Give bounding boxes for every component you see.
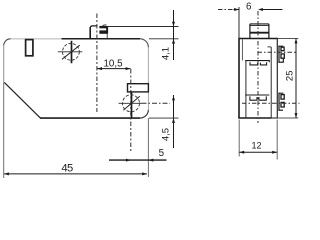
lower hole diagonal: [123, 96, 140, 110]
dimension 25 (right): [278, 39, 298, 119]
svg-text:4,1: 4,1: [161, 47, 172, 60]
plate right edge: [147, 47, 149, 110]
dimension 5 (bottom): [109, 148, 167, 162]
svg-text:6: 6: [246, 1, 252, 12]
svg-text:10,5: 10,5: [103, 58, 123, 69]
left extension for 45 (plate edge prolonged): [3, 83, 5, 178]
svg-text:25: 25: [285, 71, 296, 82]
plate top edge: [62, 38, 141, 40]
svg-text:5: 5: [159, 148, 165, 159]
inner vertical left: [245, 61, 247, 118]
plate bottom-right corner: [140, 110, 149, 119]
lower window edge: [245, 94, 269, 96]
plate chamfer bottom-left: [4, 82, 40, 118]
upper hole vertical stem: [71, 41, 73, 63]
slot rectangle top-left: [26, 40, 33, 56]
right tab lower: [278, 93, 284, 111]
centerline of tab (vertical dashed): [96, 14, 98, 113]
extension line for 5/45 dims (right, vertical): [147, 118, 149, 177]
body top edge: [238, 38, 278, 40]
plate left edge: [3, 45, 5, 83]
upper window edge: [245, 61, 269, 63]
plate top-left corner: [4, 39, 11, 46]
body right edge: [276, 39, 278, 119]
upper hole centerline (horizontal dash-dot): [258, 51, 298, 53]
inner vertical right: [270, 47, 272, 118]
lower slot rectangle: [128, 84, 149, 92]
upper hole horizontal centerline: [58, 51, 83, 53]
plate top edge extension to 4,1 dimension: [149, 38, 179, 40]
plate top-right corner: [140, 39, 149, 47]
upper window trays: [250, 62, 267, 65]
plate bottom edge extension to 4,5 dimension: [149, 117, 179, 119]
tab at top of plate: [90, 26, 108, 39]
dimension 10,5: [97, 58, 131, 70]
right tab upper: [278, 46, 284, 63]
extension line up from body left edge: [238, 7, 240, 39]
lower hole horizontal centerline (solid through, dash-dot to right): [119, 102, 142, 104]
dimension 6 (top): [218, 1, 283, 12]
body left edge: [238, 39, 240, 119]
upper hole circle: [63, 43, 80, 60]
tab top extension line to 4,1 dimension: [102, 25, 107, 27]
lower hole vertical stem: [131, 92, 133, 118]
upper hole diagonal: [62, 45, 80, 59]
dimension 45 (bottom): [4, 163, 148, 176]
vertical centerline of right view: [257, 11, 259, 123]
dimension 12 (bottom): [239, 120, 277, 160]
inner wall line: [241, 39, 243, 60]
centerline of lower hole (vertical dashed): [130, 69, 132, 152]
lower hole circle: [123, 95, 140, 112]
lower hole centerline (horizontal dash-dot): [242, 102, 300, 104]
plate top edge (left faint segment): [11, 38, 62, 40]
dimension 4,5 (right bottom): [161, 95, 175, 148]
top tab (side view): [250, 24, 269, 39]
plate bottom edge: [40, 117, 140, 119]
svg-text:45: 45: [61, 163, 73, 175]
dimension 4,1 (right top): [161, 10, 175, 60]
svg-text:4,5: 4,5: [161, 128, 172, 141]
body bottom edge thin right part: [272, 117, 278, 119]
inner shelf tick: [268, 46, 272, 48]
svg-text:12: 12: [251, 140, 261, 150]
body bottom edge: [238, 117, 271, 119]
lower window trays: [250, 96, 266, 100]
